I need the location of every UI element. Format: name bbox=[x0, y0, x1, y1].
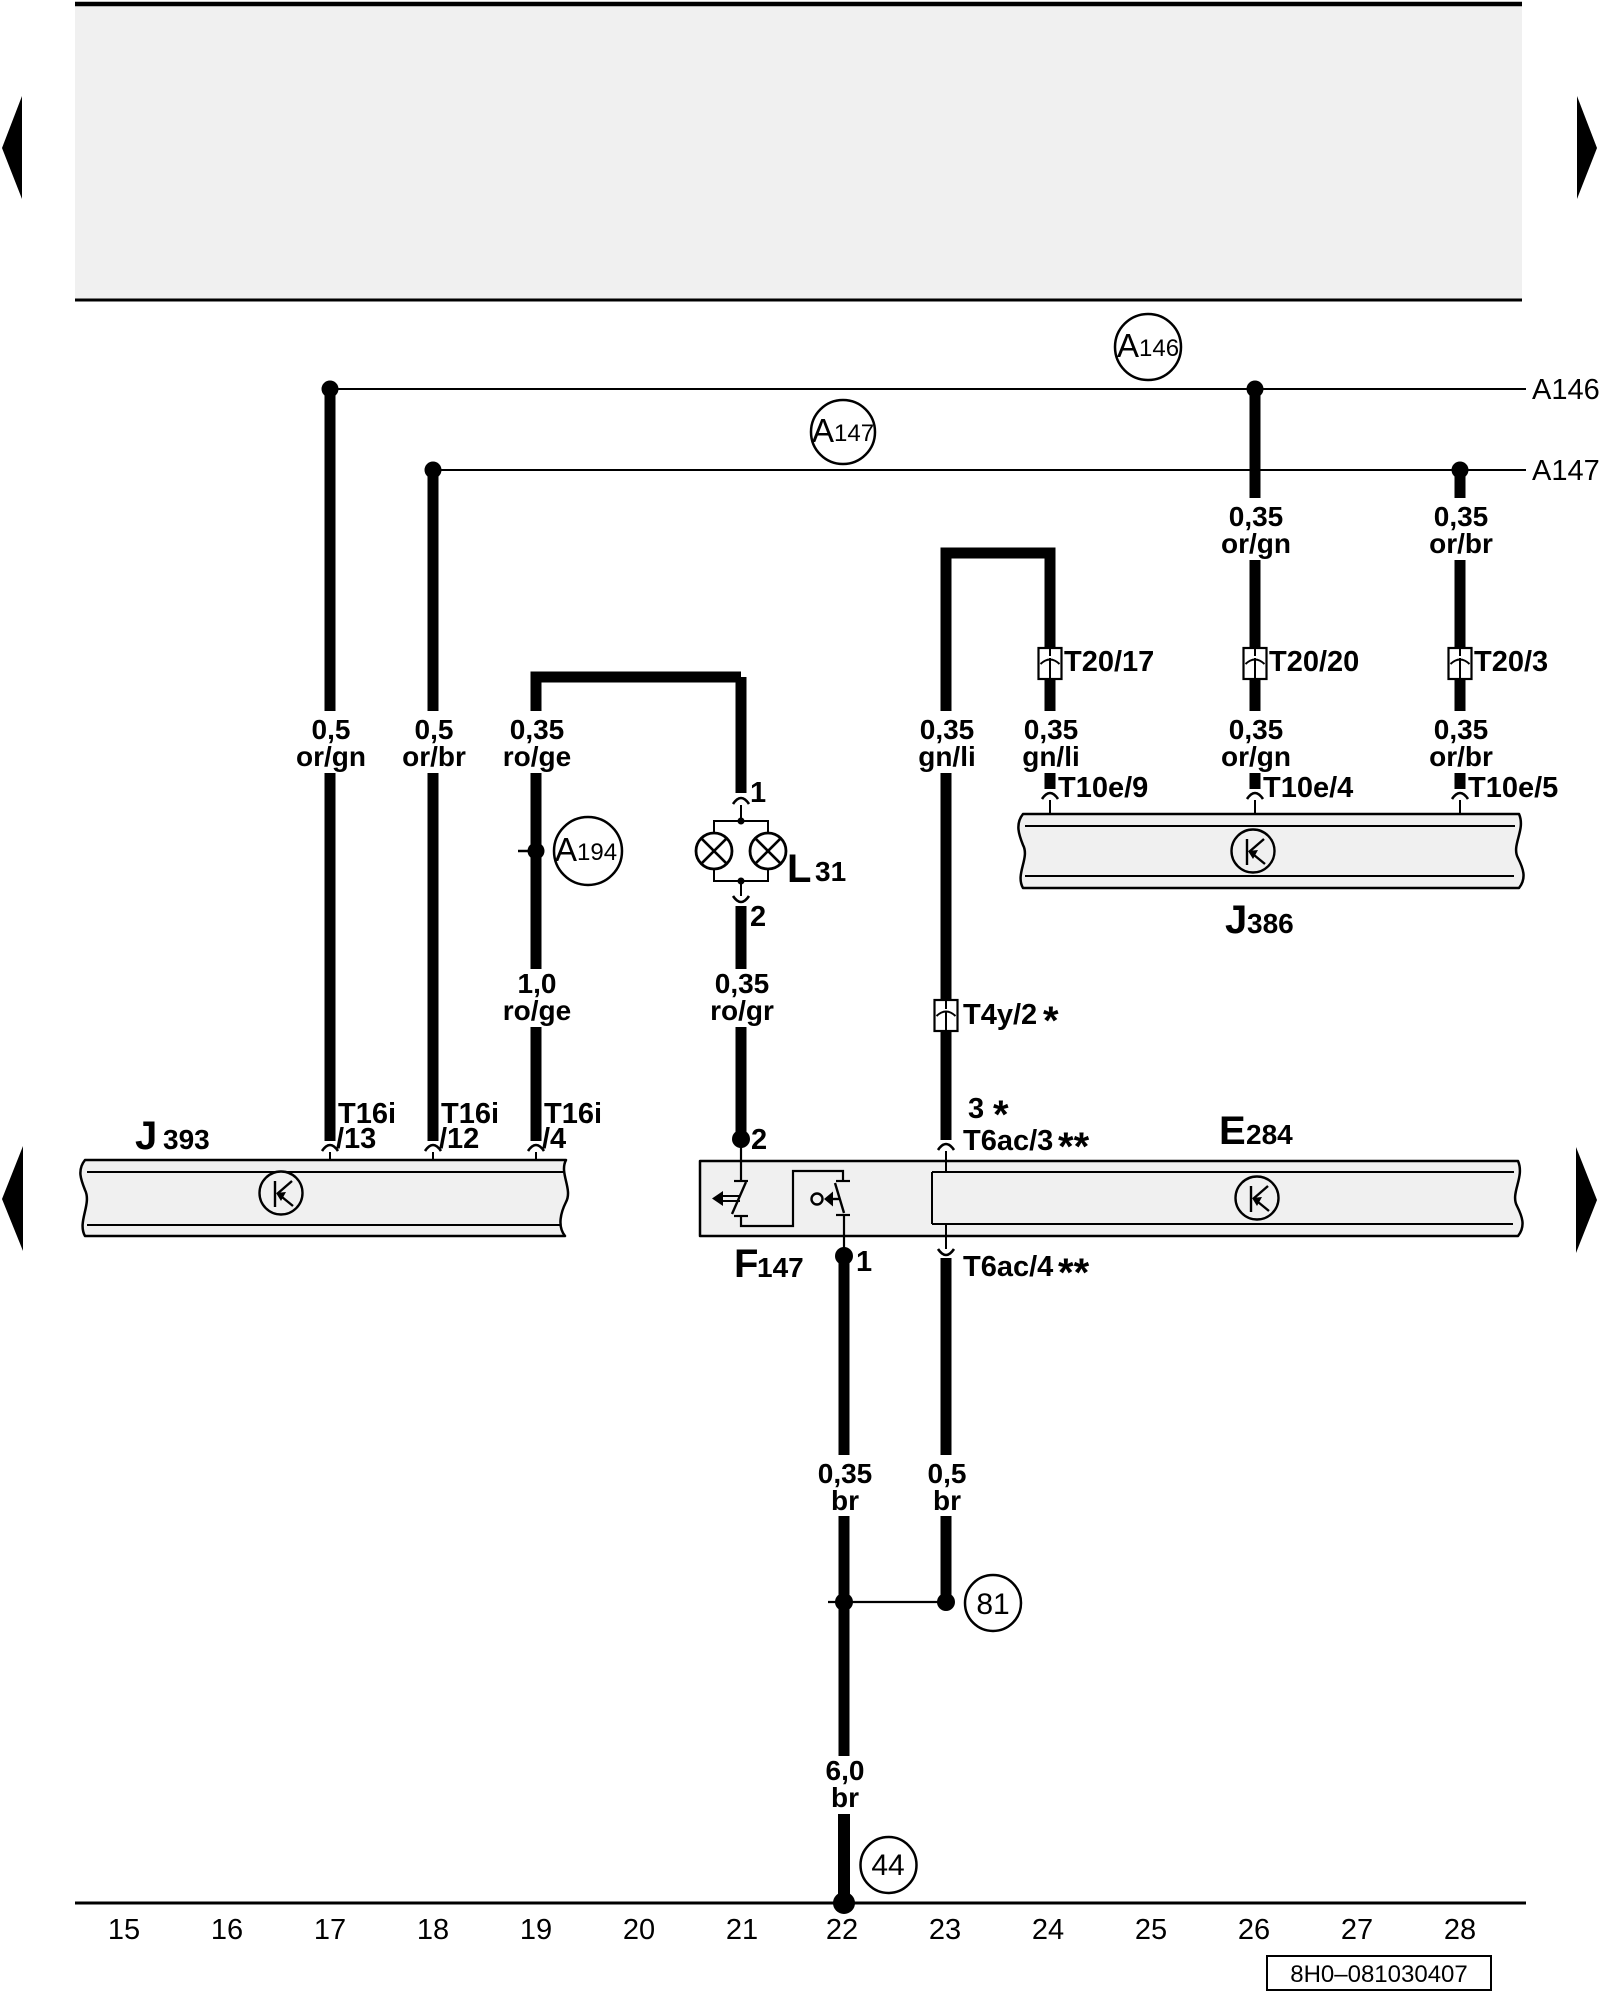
junction dot on wire column 22 bbox=[835, 1593, 853, 1611]
wire 0,35 or/gn column 26 short segment bbox=[1250, 679, 1261, 711]
svg-text:T20/3: T20/3 bbox=[1474, 646, 1548, 678]
svg-text:gn/li: gn/li bbox=[918, 741, 976, 772]
page-edge arrow mid-right bbox=[1576, 1147, 1597, 1253]
svg-text:31: 31 bbox=[815, 856, 846, 887]
bus bar E284 inner bbox=[932, 1172, 1514, 1224]
wire 0,5 or/gn column 17 upper segment bbox=[325, 389, 336, 711]
svg-text:T6ac/4: T6ac/4 bbox=[963, 1251, 1053, 1283]
switch F147 actuation arrow bbox=[712, 1191, 740, 1206]
wire 0,5 or/gn column 17 lower segment bbox=[325, 773, 336, 1141]
svg-text:*: * bbox=[1043, 999, 1059, 1043]
svg-text:or/br: or/br bbox=[1429, 528, 1493, 559]
control unit box F147/E284 outer bbox=[700, 1161, 1523, 1236]
junction on A146 at column 26 bbox=[1247, 381, 1264, 398]
pin lead L31 pin 2 bbox=[740, 881, 742, 896]
svg-text:A147: A147 bbox=[1532, 455, 1600, 487]
wire 0,35 gn/li column 23 upper segment bbox=[941, 553, 952, 711]
connector arc T6ac/3 bbox=[938, 1144, 954, 1150]
wire bridge ro/ge columns 19-21 bbox=[536, 677, 741, 682]
K symbol of E284 bbox=[1236, 1177, 1279, 1220]
wire 0,35 gn/li column 24 short segment bbox=[1045, 679, 1056, 711]
svg-text:/4: /4 bbox=[542, 1123, 566, 1155]
svg-text:20: 20 bbox=[623, 1914, 655, 1946]
connector T20/20 bbox=[1244, 648, 1267, 679]
header panel bbox=[75, 4, 1522, 300]
pin lead F147 pin 1 bbox=[843, 1216, 845, 1252]
svg-text:A: A bbox=[1117, 327, 1139, 364]
wire 0,35 br mid segment bbox=[839, 1516, 850, 1756]
connector T20/3 bbox=[1449, 648, 1472, 679]
wire column 24 stub to J386 bbox=[1045, 773, 1056, 789]
svg-text:E: E bbox=[1219, 1109, 1246, 1153]
connector T20/17 bbox=[1039, 648, 1062, 679]
pin lead T10e/5 bbox=[1459, 800, 1461, 826]
svg-text:br: br bbox=[831, 1782, 859, 1813]
svg-text:21: 21 bbox=[726, 1914, 758, 1946]
svg-text:26: 26 bbox=[1238, 1914, 1270, 1946]
svg-text:J: J bbox=[135, 1114, 157, 1158]
node label circle A146 bbox=[1115, 314, 1181, 380]
svg-text:L: L bbox=[787, 847, 811, 891]
svg-text:or/br: or/br bbox=[402, 741, 466, 772]
wire 0,5 or/br column 18 upper segment bbox=[428, 470, 439, 711]
connector arc L31 pin 2 bbox=[733, 896, 749, 902]
switch F147 right blade bbox=[835, 1183, 844, 1213]
svg-text:2: 2 bbox=[751, 1124, 767, 1156]
switch F147 left blade bbox=[732, 1182, 746, 1214]
bottom rail bbox=[75, 1902, 1526, 1905]
wire 0,35 or/br column 28 upper segment bbox=[1455, 470, 1466, 498]
junction dot F147 pin 2 bbox=[732, 1130, 750, 1148]
svg-text:284: 284 bbox=[1246, 1119, 1293, 1150]
page-edge arrow top-left bbox=[2, 96, 22, 199]
svg-text:**: ** bbox=[1058, 1125, 1090, 1169]
bus bar J386 bbox=[1018, 814, 1523, 888]
connector arc T16i/12 bbox=[425, 1145, 441, 1151]
svg-text:T4y/2: T4y/2 bbox=[963, 999, 1037, 1031]
svg-text:1: 1 bbox=[856, 1246, 872, 1278]
wire 0,35 gn/li column 23 mid segment bbox=[941, 773, 952, 1001]
connector arc T16i/4 bbox=[528, 1145, 544, 1151]
svg-text:br: br bbox=[933, 1485, 961, 1516]
wire 0,35 or/br column 28 short segment bbox=[1455, 679, 1466, 711]
svg-text:T10e/4: T10e/4 bbox=[1263, 772, 1353, 804]
pin lead T16i/4 bbox=[535, 1152, 537, 1172]
svg-text:A146: A146 bbox=[1532, 374, 1600, 406]
svg-text:28: 28 bbox=[1444, 1914, 1476, 1946]
svg-text:23: 23 bbox=[929, 1914, 961, 1946]
junction dot F147 pin 1 bbox=[835, 1247, 853, 1265]
switch F147 internal link bbox=[741, 1171, 843, 1226]
svg-text:ro/gr: ro/gr bbox=[710, 995, 774, 1026]
connector arc T10e/4 bbox=[1247, 793, 1263, 799]
svg-text:T20/17: T20/17 bbox=[1064, 646, 1154, 678]
svg-text:F: F bbox=[734, 1242, 758, 1286]
junction dot ground 81 bbox=[937, 1593, 955, 1611]
connector arc T10e/5 bbox=[1452, 793, 1468, 799]
svg-text:A: A bbox=[555, 831, 577, 868]
wire 0,35 br upper segment bbox=[839, 1256, 850, 1455]
svg-text:25: 25 bbox=[1135, 1914, 1167, 1946]
svg-text:or/br: or/br bbox=[1429, 741, 1493, 772]
svg-text:or/gn: or/gn bbox=[296, 741, 366, 772]
svg-text:2: 2 bbox=[750, 901, 766, 933]
pin lead T16i/12 bbox=[432, 1152, 434, 1172]
svg-text:27: 27 bbox=[1341, 1914, 1373, 1946]
junction on A146 at column 17 bbox=[322, 381, 339, 398]
connector arc L31 pin 1 bbox=[733, 798, 749, 804]
svg-text:br: br bbox=[831, 1485, 859, 1516]
svg-text:146: 146 bbox=[1139, 335, 1179, 362]
wire 0,35 gn/li column 24 segment bbox=[1045, 553, 1056, 649]
junction A194 tick bbox=[518, 850, 531, 853]
wire 0,35 or/gn column 26 upper segment bbox=[1250, 389, 1261, 498]
svg-text:22: 22 bbox=[826, 1914, 858, 1946]
svg-text:or/gn: or/gn bbox=[1221, 741, 1291, 772]
wire 0,35 ro/gr lower segment bbox=[736, 1027, 747, 1139]
junction tie line at ground 81 bbox=[828, 1601, 944, 1603]
svg-text:or/gn: or/gn bbox=[1221, 528, 1291, 559]
svg-text:18: 18 bbox=[417, 1914, 449, 1946]
wire 0,35 or/br column 28 mid segment bbox=[1455, 560, 1466, 649]
svg-text:24: 24 bbox=[1032, 1914, 1064, 1946]
wire 0,5 or/br column 18 lower segment bbox=[428, 773, 439, 1141]
pin lead T6ac/4 bbox=[945, 1224, 947, 1249]
svg-text:147: 147 bbox=[757, 1252, 804, 1283]
svg-text:T10e/9: T10e/9 bbox=[1058, 772, 1148, 804]
svg-text:ro/ge: ro/ge bbox=[503, 995, 571, 1026]
svg-text:16: 16 bbox=[211, 1914, 243, 1946]
ground junction dot 44 bbox=[833, 1892, 855, 1914]
wire ro/ge drop to lamp L31 bbox=[736, 677, 747, 793]
wire 6,0 br ground segment bbox=[838, 1814, 850, 1903]
switch F147 contact lead pin 2 bbox=[740, 1139, 742, 1180]
svg-text:15: 15 bbox=[108, 1914, 140, 1946]
svg-text:17: 17 bbox=[314, 1914, 346, 1946]
ground symbol 81 bbox=[965, 1575, 1021, 1631]
switch F147 left contact ticks bbox=[734, 1180, 748, 1182]
wire 1,0 ro/ge column 19 lower segment bbox=[531, 1027, 542, 1141]
lamp L31 body bbox=[696, 818, 786, 885]
svg-text:147: 147 bbox=[834, 420, 874, 447]
pin lead T10e/9 bbox=[1049, 800, 1051, 826]
page-edge arrow mid-left bbox=[2, 1146, 23, 1251]
switch F147 detent symbol bbox=[812, 1192, 840, 1207]
wire 0,35 ro/gr upper segment bbox=[736, 906, 747, 969]
svg-text:386: 386 bbox=[1247, 908, 1294, 939]
bus bar J393 bbox=[80, 1160, 568, 1236]
wire 1,0 ro/ge column 19 segment bbox=[531, 773, 542, 969]
svg-text:/12: /12 bbox=[439, 1123, 479, 1155]
page-edge arrow top-right bbox=[1577, 96, 1597, 199]
svg-text:3: 3 bbox=[968, 1093, 984, 1125]
connector T4y/2 bbox=[935, 1000, 958, 1031]
pin lead T6ac/3 bbox=[945, 1151, 947, 1172]
connector arc T10e/9 bbox=[1042, 793, 1058, 799]
wire 0,35 ro/ge column 19 segment bbox=[531, 677, 542, 711]
document number box bbox=[1267, 1956, 1491, 1990]
lamp bulb left bbox=[696, 833, 732, 869]
svg-text:T20/20: T20/20 bbox=[1269, 646, 1359, 678]
svg-text:393: 393 bbox=[163, 1124, 210, 1155]
pin lead T16i/13 bbox=[329, 1152, 331, 1172]
connector arc T16i/13 bbox=[322, 1145, 338, 1151]
svg-text:19: 19 bbox=[520, 1914, 552, 1946]
svg-text:J: J bbox=[1225, 898, 1247, 942]
ground symbol 44 bbox=[861, 1837, 917, 1893]
svg-text:8H0–081030407: 8H0–081030407 bbox=[1290, 1961, 1468, 1988]
wire net A147 bbox=[433, 469, 1526, 471]
switch F147 right contact ticks bbox=[836, 1180, 850, 1182]
svg-text:81: 81 bbox=[976, 1588, 1009, 1621]
svg-text:/13: /13 bbox=[336, 1123, 376, 1155]
svg-text:**: ** bbox=[1058, 1251, 1090, 1295]
svg-text:44: 44 bbox=[871, 1849, 904, 1882]
svg-text:T6ac/3: T6ac/3 bbox=[963, 1125, 1053, 1157]
wire 0,5 br lower segment bbox=[941, 1516, 952, 1598]
junction A194 dot bbox=[528, 843, 545, 860]
wire 0,35 or/gn column 26 mid segment bbox=[1250, 560, 1261, 649]
svg-text:T10e/5: T10e/5 bbox=[1468, 772, 1558, 804]
svg-text:gn/li: gn/li bbox=[1022, 741, 1080, 772]
pin lead L31 pin 1 bbox=[740, 805, 742, 822]
svg-text:1: 1 bbox=[750, 777, 766, 809]
junction on A147 at column 18 bbox=[425, 462, 442, 479]
junction on A147 at column 28 bbox=[1452, 462, 1469, 479]
svg-text:ro/ge: ro/ge bbox=[503, 741, 571, 772]
wire net A146 bbox=[330, 388, 1526, 390]
lamp bulb right bbox=[750, 833, 786, 869]
wire column 28 stub to J386 bbox=[1455, 773, 1466, 789]
wire 0,35 gn/li column 23 lower segment bbox=[941, 1031, 952, 1140]
svg-text:194: 194 bbox=[577, 839, 617, 866]
connector arc T6ac/4 bbox=[938, 1249, 954, 1255]
svg-text:A: A bbox=[812, 412, 834, 449]
wire 0,5 br upper segment bbox=[941, 1258, 952, 1455]
pin lead T10e/4 bbox=[1254, 800, 1256, 826]
wire column 26 stub to J386 bbox=[1250, 773, 1261, 789]
node label circle A147 bbox=[811, 400, 875, 464]
node label circle A194 bbox=[554, 817, 622, 885]
wire bridge gn/li columns 23-24 bbox=[946, 553, 1050, 560]
K symbol of J386 bbox=[1232, 830, 1275, 873]
K symbol of J393 bbox=[260, 1172, 303, 1215]
